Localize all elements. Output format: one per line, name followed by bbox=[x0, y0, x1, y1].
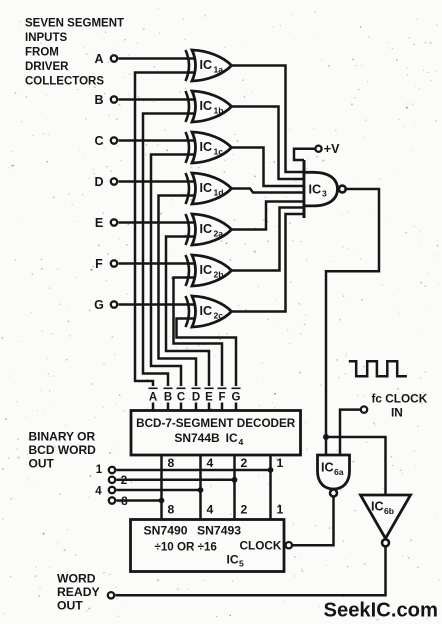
node G-bar: decoder output label bbox=[232, 388, 241, 403]
svg-text:2c: 2c bbox=[214, 311, 224, 321]
svg-text:G: G bbox=[94, 298, 104, 312]
caption: SEVEN SEGMENT INPUTS FROM DRIVER COLLECTORS bbox=[25, 18, 124, 88]
svg-text:IC: IC bbox=[309, 183, 322, 197]
svg-text:E: E bbox=[205, 392, 213, 404]
svg-text:+V: +V bbox=[324, 142, 340, 156]
svg-text:G: G bbox=[232, 392, 241, 404]
svg-text:1c: 1c bbox=[214, 147, 224, 157]
node: fc CLOCK IN terminal bbox=[361, 392, 428, 420]
wire: stub A-bar label to decoder box bbox=[152, 403, 155, 411]
svg-text:C: C bbox=[94, 134, 103, 148]
wire: input B to gate IC1b upper input bbox=[119, 98, 197, 101]
svg-text:IC: IC bbox=[227, 553, 239, 567]
svg-text:BCD WORD: BCD WORD bbox=[29, 443, 97, 457]
svg-text:IC: IC bbox=[200, 181, 213, 195]
svg-text:2: 2 bbox=[241, 456, 248, 470]
svg-text:5: 5 bbox=[239, 559, 244, 569]
svg-text:IC: IC bbox=[371, 500, 384, 514]
node A: input terminal bbox=[94, 52, 117, 66]
IC5: SN7490 SN7493 divide-by-10/16 counter box bbox=[131, 520, 285, 572]
exclusive-OR gate IC2a bbox=[186, 214, 232, 245]
svg-text:F: F bbox=[95, 257, 103, 271]
wire: decoder output E-bar feedback to gate IC2a lower input bbox=[166, 237, 209, 387]
svg-text:OUT: OUT bbox=[29, 456, 55, 470]
wire: decoder output B-bar feedback to gate IC1b lower input bbox=[143, 114, 196, 387]
wire: input F to gate IC2b upper input bbox=[119, 262, 197, 265]
wire: IC2c output to IC3 input bbox=[231, 214, 304, 312]
svg-text:A: A bbox=[149, 392, 157, 404]
wire: IC2a output to IC3 input bbox=[231, 202, 304, 230]
wire: decoder output F-bar feedback to gate IC2b lower input bbox=[174, 278, 223, 387]
wire: decoder output A-bar feedback to gate IC1a lower input bbox=[135, 73, 196, 387]
svg-text:SN7490: SN7490 bbox=[144, 524, 188, 538]
wire: IC2b output to IC3 input bbox=[231, 208, 304, 271]
wire: IC3 output down-left to IC6 node bbox=[326, 189, 379, 455]
svg-text:IC: IC bbox=[200, 140, 213, 154]
junction: IC3 output / IC6a / IC6b node bbox=[323, 434, 329, 440]
NAND gate IC3 (8-input) bbox=[304, 160, 346, 218]
wire: junction to IC6b input bbox=[326, 437, 386, 495]
svg-text:IC: IC bbox=[200, 304, 213, 318]
svg-text:SN744B IC: SN744B IC bbox=[174, 431, 238, 445]
svg-text:1: 1 bbox=[96, 464, 103, 476]
svg-text:IC: IC bbox=[321, 461, 334, 475]
svg-text:E: E bbox=[95, 216, 103, 230]
svg-text:C: C bbox=[177, 392, 185, 404]
svg-text:B: B bbox=[164, 392, 172, 404]
svg-text:1b: 1b bbox=[214, 106, 224, 116]
wire: stub D-bar label to decoder box bbox=[195, 403, 198, 411]
svg-text:D: D bbox=[94, 175, 103, 189]
svg-text:2: 2 bbox=[121, 475, 127, 487]
node F: input terminal bbox=[95, 257, 117, 271]
wire: bit 8 line bbox=[116, 499, 161, 502]
svg-text:CLOCK: CLOCK bbox=[240, 539, 282, 553]
svg-text:4: 4 bbox=[95, 485, 102, 497]
svg-text:F: F bbox=[218, 392, 225, 404]
svg-text:IC: IC bbox=[200, 222, 213, 236]
exclusive-OR gate IC1c bbox=[186, 132, 232, 163]
svg-text:READY: READY bbox=[57, 585, 100, 599]
exclusive-OR gate IC2b bbox=[186, 255, 232, 286]
exclusive-OR gate IC1b bbox=[186, 91, 232, 122]
svg-text:IN: IN bbox=[391, 406, 403, 420]
svg-text:8: 8 bbox=[121, 496, 128, 508]
svg-text:fc CLOCK: fc CLOCK bbox=[372, 392, 428, 406]
wire: bit 2 line bbox=[116, 479, 234, 482]
svg-text:OUT: OUT bbox=[57, 599, 83, 613]
inverter IC6b bbox=[361, 495, 411, 546]
wire: bit 4 line bbox=[116, 489, 200, 492]
node: BCD word bit 2 terminal bbox=[109, 477, 115, 483]
wire: input C to gate IC1c upper input bbox=[119, 139, 197, 142]
wire: decoder output C-bar feedback to gate IC1c lower input bbox=[151, 155, 196, 387]
svg-text:8: 8 bbox=[168, 503, 175, 517]
junction dot bit 8 bbox=[159, 498, 165, 504]
node: BCD word bit 8 terminal bbox=[109, 497, 115, 503]
node E-bar: decoder output label bbox=[205, 388, 214, 403]
svg-text:IC: IC bbox=[200, 263, 213, 277]
wire: decoder pin to IC5 pin (weight 4) bbox=[199, 455, 202, 520]
wire: IC1b output to IC3 input bbox=[231, 107, 304, 180]
wire: IC1d output to IC3 input bbox=[231, 189, 304, 193]
svg-text:SN7493: SN7493 bbox=[197, 524, 241, 538]
wire: stub C-bar label to decoder box bbox=[180, 403, 183, 411]
clock waveform symbol bbox=[349, 361, 407, 376]
svg-text:WORD: WORD bbox=[57, 572, 96, 586]
junction dot bit 1 bbox=[268, 467, 274, 473]
junction dot bit 4 bbox=[198, 487, 204, 493]
wire: IC6a output to IC5 CLOCK bbox=[293, 497, 334, 546]
wire: decoder output D-bar feedback to gate IC1d lower input bbox=[159, 196, 197, 387]
wire: input A to gate IC1a upper input bbox=[119, 57, 197, 60]
svg-text:8: 8 bbox=[168, 456, 175, 470]
NAND gate IC6a bbox=[318, 455, 350, 497]
node D: input terminal bbox=[94, 175, 117, 189]
wire: decoder pin to IC5 pin (weight 8) bbox=[160, 455, 163, 520]
wire: decoder pin to IC5 pin (weight 2) bbox=[233, 455, 236, 520]
junction dot bit 2 bbox=[232, 477, 238, 483]
wire: IC6b output to WORD READY OUT bbox=[116, 546, 386, 595]
wire: input E to gate IC2a upper input bbox=[119, 221, 197, 224]
svg-text:D: D bbox=[192, 392, 200, 404]
svg-text:÷10 OR ÷16: ÷10 OR ÷16 bbox=[155, 541, 218, 554]
node D-bar: decoder output label bbox=[192, 388, 201, 403]
svg-text:6a: 6a bbox=[334, 467, 344, 477]
node B-bar: decoder output label bbox=[164, 388, 173, 403]
wire: bit 1 line bbox=[116, 469, 270, 472]
wire: input D to gate IC1d upper input bbox=[119, 180, 197, 183]
svg-text:COLLECTORS: COLLECTORS bbox=[25, 76, 104, 88]
svg-text:2: 2 bbox=[241, 503, 248, 517]
node E: input terminal bbox=[95, 216, 117, 230]
wire: stub G-bar label to decoder box bbox=[235, 403, 238, 411]
wire: decoder output G-bar feedback to gate IC2c lower input bbox=[177, 319, 237, 387]
svg-text:6b: 6b bbox=[384, 506, 394, 516]
svg-text:4: 4 bbox=[207, 456, 214, 470]
svg-text:1a: 1a bbox=[214, 65, 224, 75]
wire: stub F-bar label to decoder box bbox=[221, 403, 224, 411]
wire: fc CLOCK IN to IC6a input bbox=[340, 410, 360, 455]
node: WORD READY OUT terminal bbox=[57, 572, 114, 613]
power +V terminal bbox=[315, 142, 340, 156]
svg-text:SEVEN SEGMENT: SEVEN SEGMENT bbox=[25, 18, 124, 30]
svg-text:IC: IC bbox=[200, 99, 213, 113]
node G: input terminal bbox=[94, 298, 117, 312]
svg-text:IC: IC bbox=[200, 58, 213, 72]
wire: +V to IC3 top input bbox=[294, 149, 315, 160]
svg-text:3: 3 bbox=[322, 189, 327, 199]
wire: decoder pin to IC5 pin (weight 1) bbox=[269, 455, 272, 520]
svg-text:2a: 2a bbox=[214, 229, 224, 239]
svg-text:4: 4 bbox=[239, 437, 244, 447]
wire: IC1a output to IC3 input bbox=[231, 66, 304, 173]
node B: input terminal bbox=[94, 93, 117, 107]
svg-text:4: 4 bbox=[207, 503, 214, 517]
node C-bar: decoder output label bbox=[177, 388, 186, 403]
node A-bar: decoder output label bbox=[149, 388, 158, 403]
svg-text:B: B bbox=[94, 93, 103, 107]
svg-text:DRIVER: DRIVER bbox=[25, 61, 69, 73]
wire: stub E-bar label to decoder box bbox=[208, 403, 211, 411]
svg-text:BINARY OR: BINARY OR bbox=[29, 430, 96, 444]
svg-text:FROM: FROM bbox=[25, 47, 59, 59]
wire: input G to gate IC2c upper input bbox=[119, 303, 197, 306]
wire: IC1c output to IC3 input bbox=[231, 148, 304, 187]
node: IC5 CLOCK terminal bbox=[286, 542, 292, 548]
caption: BINARY OR BCD WORD OUT bbox=[29, 430, 97, 471]
svg-text:BCD-7-SEGMENT DECODER: BCD-7-SEGMENT DECODER bbox=[136, 417, 296, 430]
exclusive-OR gate IC1a bbox=[186, 50, 232, 81]
node: BCD word bit 1 terminal bbox=[109, 467, 115, 473]
exclusive-OR gate IC2c bbox=[186, 296, 232, 327]
svg-text:INPUTS: INPUTS bbox=[25, 32, 68, 44]
exclusive-OR gate IC1d bbox=[186, 173, 232, 204]
svg-text:1: 1 bbox=[277, 503, 284, 517]
node: BCD word bit 4 terminal bbox=[109, 487, 115, 493]
svg-text:1: 1 bbox=[277, 456, 284, 470]
wire: stub B-bar label to decoder box bbox=[167, 403, 170, 411]
svg-text:1d: 1d bbox=[214, 188, 224, 198]
IC4: BCD-7-SEGMENT DECODER SN744B box bbox=[131, 411, 301, 456]
node C: input terminal bbox=[94, 134, 117, 148]
node F-bar: decoder output label bbox=[218, 388, 227, 403]
svg-text:SeekIC.com: SeekIC.com bbox=[324, 600, 438, 622]
svg-text:2b: 2b bbox=[214, 270, 224, 280]
svg-text:A: A bbox=[94, 52, 103, 66]
